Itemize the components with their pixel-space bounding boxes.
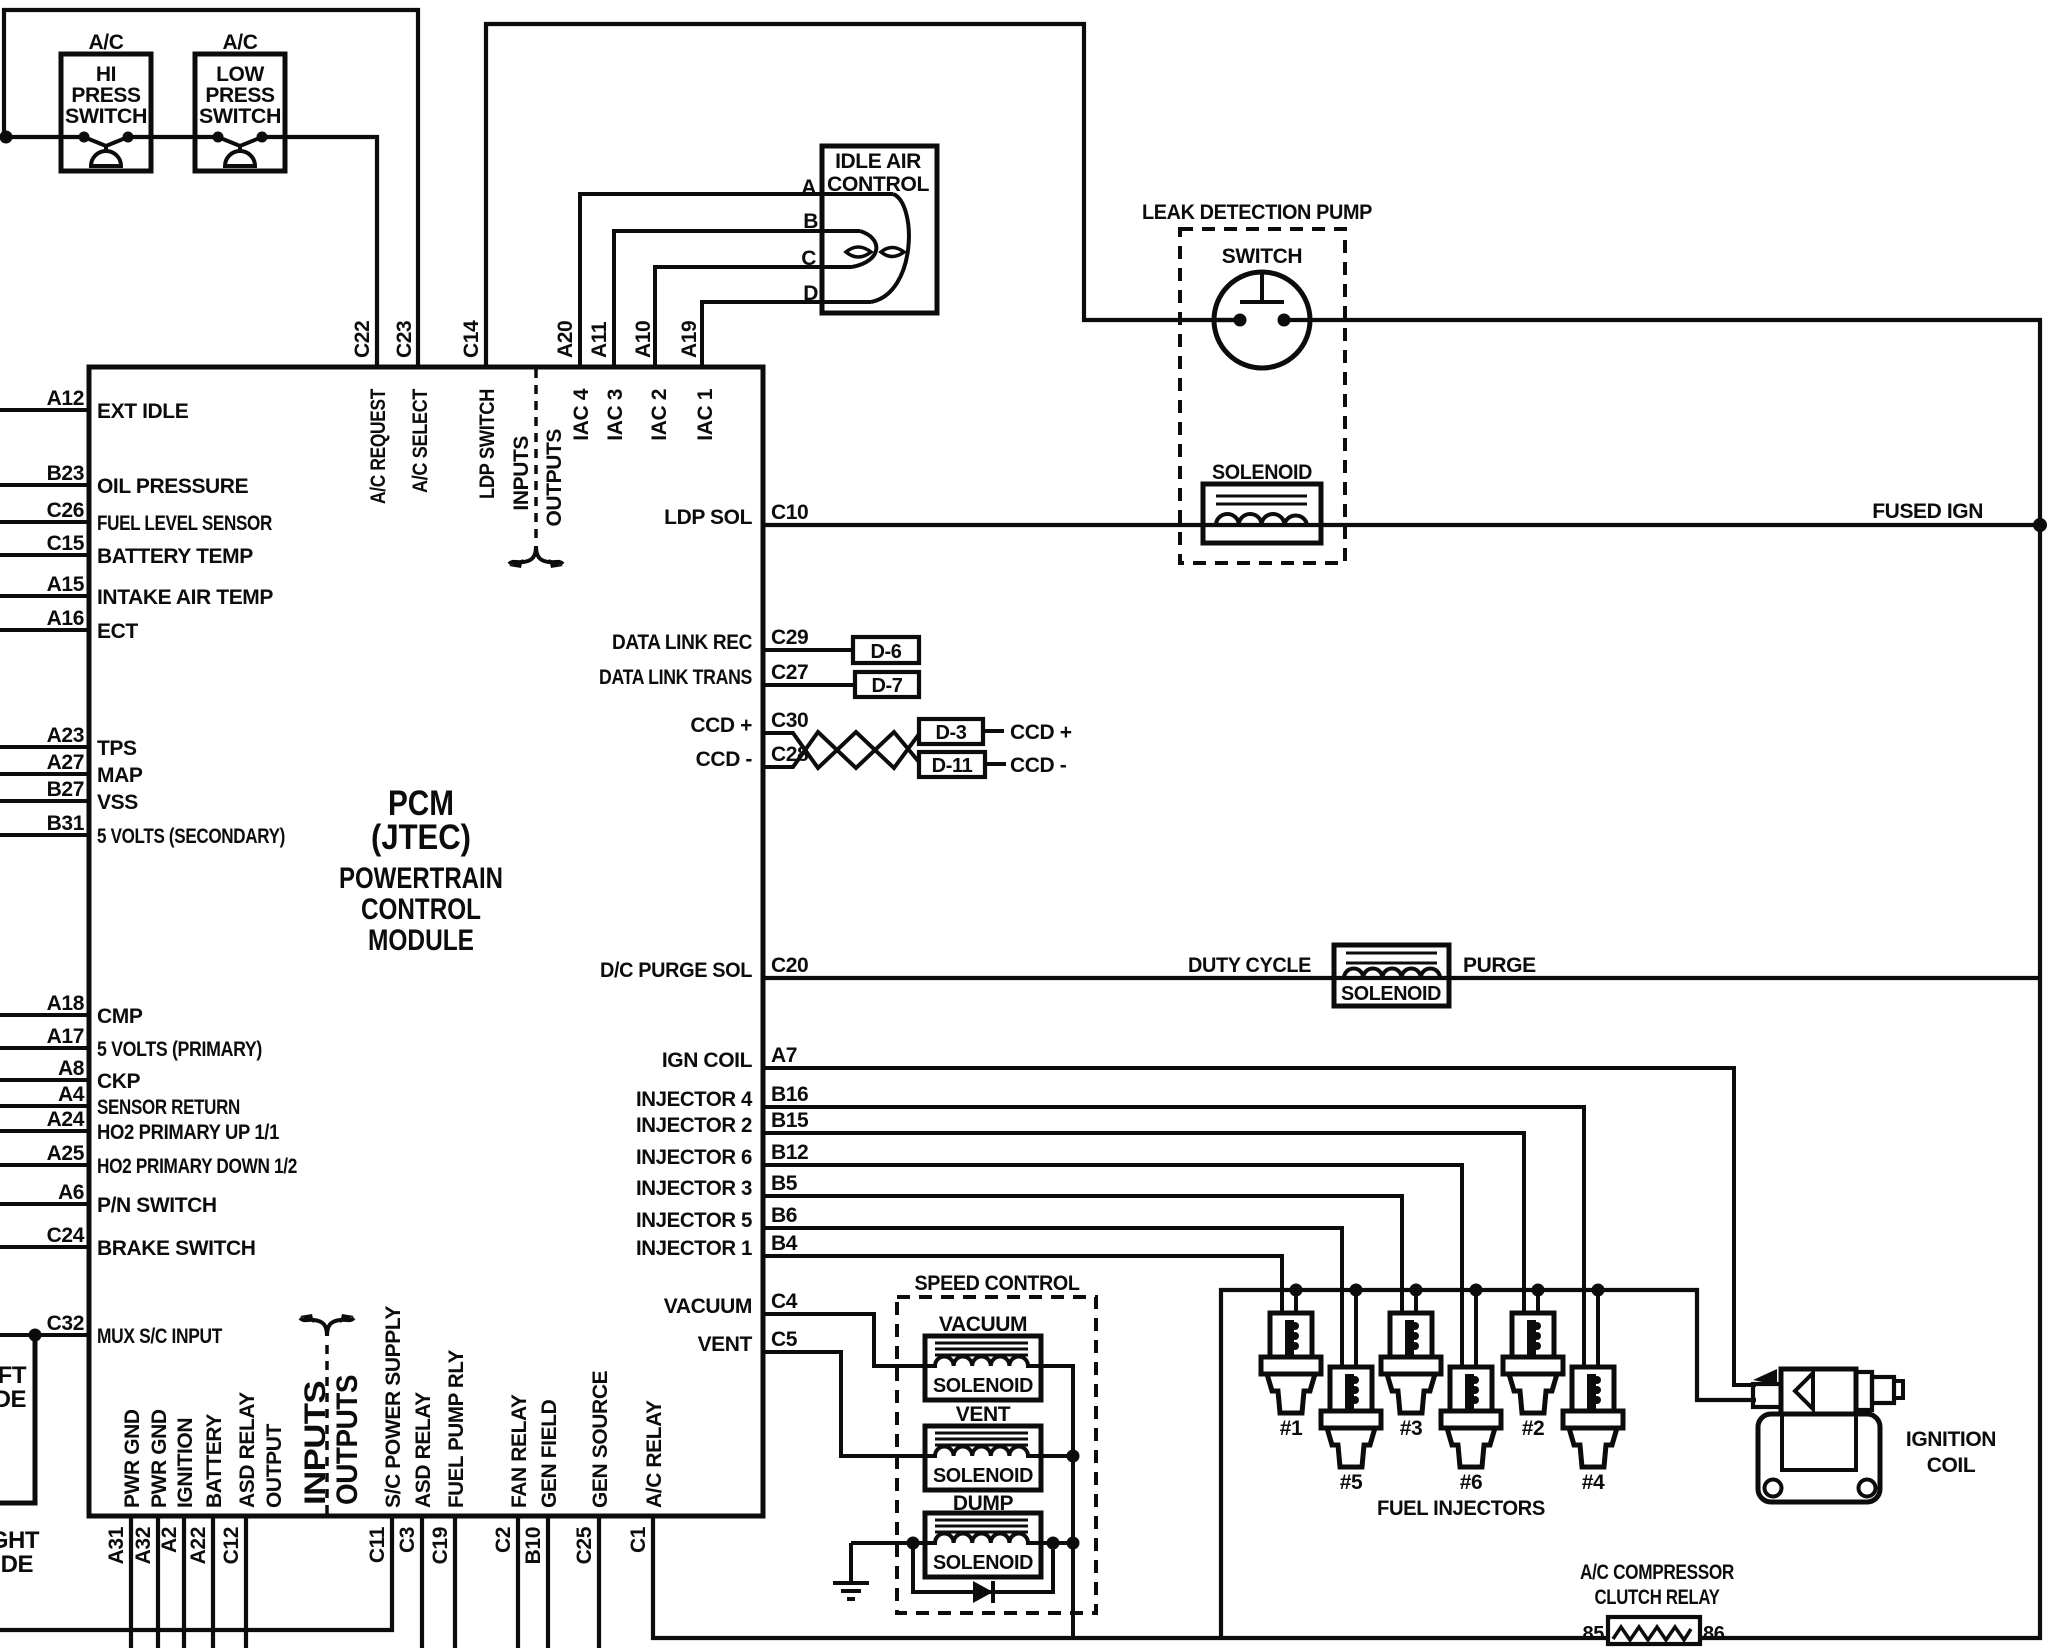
svg-text:SOLENOID: SOLENOID	[933, 1552, 1033, 1574]
svg-text:C29: C29	[771, 626, 808, 649]
wire injector B5	[763, 1196, 1402, 1313]
svg-text:OIL PRESSURE: OIL PRESSURE	[97, 475, 249, 498]
svg-text:OUTPUT: OUTPUT	[263, 1424, 286, 1509]
junction node top-left	[0, 131, 13, 144]
svg-text:OUTPUTS: OUTPUTS	[543, 429, 566, 527]
left pin A12 EXT IDLE: wire	[0, 408, 89, 412]
wire vent solenoid output	[1041, 1454, 1073, 1458]
svg-text:DUTY CYCLE: DUTY CYCLE	[1188, 954, 1311, 977]
svg-text:A8: A8	[58, 1057, 85, 1080]
relay coil box	[1608, 1617, 1700, 1644]
purge solenoid core lines	[1346, 953, 1437, 963]
svg-text:A27: A27	[47, 751, 84, 774]
svg-text:TPS: TPS	[97, 737, 137, 760]
wire LDP switch to right edge, down right side, bottom to relay	[1284, 320, 2040, 1638]
svg-text:SOLENOID: SOLENOID	[1341, 983, 1441, 1005]
svg-text:IGNITION: IGNITION	[1906, 1428, 1996, 1451]
svg-text:D-3: D-3	[935, 722, 966, 744]
wire C5 vent to vent solenoid	[763, 1352, 935, 1456]
svg-text:A4: A4	[58, 1083, 85, 1106]
ground symbol for dump solenoid	[833, 1543, 869, 1599]
svg-text:CCD -: CCD -	[1010, 754, 1067, 777]
svg-text:IAC 1: IAC 1	[694, 388, 717, 440]
svg-text:C23: C23	[393, 321, 416, 358]
svg-text:SIDE: SIDE	[0, 1551, 33, 1578]
fuel injector #4	[1563, 1284, 1623, 1495]
svg-text:85: 85	[1583, 1623, 1605, 1645]
svg-text:INTAKE AIR TEMP: INTAKE AIR TEMP	[97, 586, 273, 609]
injector supply bus wire	[1221, 1290, 1756, 1636]
svg-text:DATA LINK REC: DATA LINK REC	[612, 631, 752, 654]
wire: A/C switch line from left edge through switches to C22	[0, 137, 377, 367]
svg-text:#2: #2	[1522, 1417, 1545, 1440]
svg-text:PRESS: PRESS	[71, 84, 141, 107]
svg-text:HO2 PRIMARY UP 1/1: HO2 PRIMARY UP 1/1	[97, 1121, 280, 1144]
svg-text:C12: C12	[220, 1527, 243, 1564]
svg-text:SENSOR RETURN: SENSOR RETURN	[97, 1096, 240, 1119]
wire D-11 to CCD-	[985, 762, 1006, 766]
switch blade and contacts HI	[84, 137, 128, 146]
left pin A15 INTAKE AIR TEMP: wire	[0, 594, 89, 598]
IAC winding curve B-C	[852, 231, 876, 267]
wire C29 data link rec to D-6	[763, 648, 853, 652]
svg-text:C30: C30	[771, 709, 808, 732]
svg-text:BRAKE SWITCH: BRAKE SWITCH	[97, 1237, 256, 1260]
wire injector B6	[763, 1228, 1342, 1367]
svg-text:#4: #4	[1582, 1471, 1605, 1494]
svg-text:C22: C22	[351, 321, 374, 358]
diode bypass loop	[913, 1543, 1053, 1592]
left pin A25 HO2 PRIMARY DOWN 1/2: wire	[0, 1163, 89, 1167]
svg-text:#3: #3	[1400, 1417, 1423, 1440]
svg-text:ASD RELAY: ASD RELAY	[236, 1392, 259, 1508]
wire solenoid common vertical to bottom wire	[1041, 1366, 1073, 1638]
A/C HI press switch box	[61, 54, 151, 171]
CCD twisted pair wire from C28	[763, 732, 919, 768]
svg-text:RIGHT: RIGHT	[0, 1527, 40, 1554]
svg-text:PRESS: PRESS	[205, 84, 275, 107]
svg-text:B12: B12	[771, 1141, 808, 1164]
svg-text:C26: C26	[47, 499, 84, 522]
svg-text:C4: C4	[771, 1290, 798, 1313]
left side box	[0, 1335, 35, 1503]
CCD twisted pair wire from C30	[763, 732, 919, 768]
wire IAC4 A20 to pin A	[580, 194, 893, 367]
svg-text:LOW: LOW	[216, 63, 264, 86]
LDP switch plunger T	[1240, 273, 1284, 302]
wire C14 LDP switch net: up, right, down to switch	[486, 24, 1240, 367]
svg-text:IAC 3: IAC 3	[604, 389, 627, 441]
coil connector box	[1753, 1384, 1781, 1407]
junction dot fused ign right edge	[2033, 518, 2047, 532]
svg-text:B15: B15	[771, 1109, 809, 1132]
wire C10 LDP SOL to right edge (FUSED IGN)	[763, 523, 2040, 527]
left pin A8 CKP: wire	[0, 1078, 89, 1082]
left pin C24 BRAKE SWITCH: wire	[0, 1245, 89, 1249]
svg-text:FUEL INJECTORS: FUEL INJECTORS	[1377, 1497, 1545, 1520]
svg-text:DATA LINK TRANS: DATA LINK TRANS	[599, 666, 752, 689]
left pin A23 TPS: wire	[0, 745, 89, 749]
svg-text:MODULE: MODULE	[368, 924, 474, 957]
svg-text:SIDE: SIDE	[0, 1386, 26, 1413]
svg-text:C27: C27	[771, 661, 808, 684]
svg-text:INJECTOR 3: INJECTOR 3	[636, 1177, 752, 1200]
wire dump solenoid line from ground	[851, 1541, 1073, 1545]
pressure diaphragm dome HI	[91, 146, 121, 166]
wire pin x=213	[211, 1516, 215, 1648]
svg-text:HO2 PRIMARY DOWN 1/2: HO2 PRIMARY DOWN 1/2	[97, 1155, 297, 1178]
svg-text:A/C COMPRESSOR: A/C COMPRESSOR	[1580, 1561, 1734, 1584]
coil lower body rounded	[1758, 1414, 1880, 1502]
svg-text:CKP: CKP	[97, 1070, 141, 1093]
svg-text:#1: #1	[1280, 1417, 1303, 1440]
svg-text:A/C SELECT: A/C SELECT	[409, 389, 432, 493]
wire pin x=548	[546, 1516, 550, 1648]
coil connector arrow	[1753, 1369, 1777, 1385]
svg-text:SOLENOID: SOLENOID	[933, 1375, 1033, 1397]
switch text HI PRESS SWITCH	[65, 63, 147, 128]
LDP solenoid box	[1203, 484, 1321, 543]
speed control vent solenoid coil	[925, 1447, 1041, 1457]
svg-text:CONTROL: CONTROL	[827, 173, 930, 196]
wire pin x=131	[129, 1516, 133, 1648]
wire pin x=246	[244, 1516, 248, 1648]
svg-text:A6: A6	[58, 1181, 84, 1204]
svg-text:CLUTCH RELAY: CLUTCH RELAY	[1595, 1586, 1720, 1609]
svg-text:B: B	[803, 210, 818, 233]
left pin A6 P/N SWITCH: wire	[0, 1202, 89, 1206]
svg-text:CCD +: CCD +	[690, 714, 752, 737]
junction dot dump left (diode tap)	[907, 1537, 920, 1550]
wire C11 S/C power supply down and left to edge	[0, 1516, 392, 1630]
svg-text:A/C: A/C	[89, 31, 124, 54]
svg-text:A24: A24	[47, 1108, 85, 1131]
speed control dashed box	[897, 1297, 1096, 1613]
D-3 connector box	[919, 719, 983, 744]
wire: top-left feed to C23 A/C SELECT	[4, 10, 418, 367]
LDP dashed box	[1180, 229, 1345, 563]
purge solenoid box	[1334, 945, 1449, 1006]
speed control dump solenoid box	[925, 1513, 1041, 1577]
svg-text:SWITCH: SWITCH	[65, 105, 147, 128]
wire pin x=599	[597, 1516, 601, 1648]
top divider dashed line	[534, 369, 538, 544]
svg-text:A/C RELAY: A/C RELAY	[643, 1400, 666, 1508]
relay coil zigzag	[1613, 1627, 1691, 1640]
svg-text:IAC 4: IAC 4	[570, 388, 593, 440]
wire segment into switch left	[1214, 318, 1240, 322]
svg-text:D-7: D-7	[871, 675, 902, 697]
left pin C26 FUEL LEVEL SENSOR: wire	[0, 520, 89, 524]
coil upper body	[1781, 1369, 1856, 1414]
svg-text:A10: A10	[632, 321, 655, 358]
svg-text:(JTEC): (JTEC)	[371, 818, 471, 857]
svg-text:INPUTS: INPUTS	[510, 436, 533, 511]
svg-text:B4: B4	[771, 1232, 798, 1255]
svg-text:A17: A17	[47, 1025, 84, 1048]
pressure diaphragm dome LOW	[225, 146, 255, 166]
svg-text:CMP: CMP	[97, 1005, 143, 1028]
svg-text:A15: A15	[47, 573, 85, 596]
svg-text:B6: B6	[771, 1204, 797, 1227]
svg-text:A11: A11	[588, 321, 611, 358]
left pin A17 5 VOLTS (PRIMARY): wire	[0, 1046, 89, 1050]
left pin A4 SENSOR RETURN: wire	[0, 1104, 89, 1108]
svg-text:MUX S/C INPUT: MUX S/C INPUT	[97, 1325, 222, 1348]
svg-text:D/C PURGE SOL: D/C PURGE SOL	[600, 959, 753, 982]
svg-text:INJECTOR 4: INJECTOR 4	[636, 1088, 753, 1111]
svg-text:A12: A12	[47, 387, 84, 410]
wire injector B16	[763, 1107, 1584, 1367]
switch blade and contacts LOW	[218, 137, 262, 146]
bottom divider brace bird symbol	[300, 1318, 354, 1336]
svg-text:SPEED CONTROL: SPEED CONTROL	[915, 1272, 1081, 1295]
svg-text:A25: A25	[47, 1142, 85, 1165]
svg-text:PWR GND: PWR GND	[148, 1409, 171, 1508]
left pin A18 CMP: wire	[0, 1013, 89, 1017]
fuel injector #1	[1261, 1284, 1321, 1441]
speed control vacuum solenoid box	[925, 1336, 1041, 1400]
svg-text:A31: A31	[105, 1526, 128, 1564]
svg-text:A22: A22	[187, 1527, 210, 1564]
D-11 connector box	[919, 752, 985, 777]
speed control vacuum solenoid core lines	[935, 1343, 1028, 1355]
svg-text:C: C	[801, 247, 816, 270]
D-7 connector box	[855, 672, 919, 697]
svg-text:A/C: A/C	[223, 31, 258, 54]
svg-text:B5: B5	[771, 1172, 798, 1195]
svg-text:C2: C2	[492, 1527, 515, 1553]
IAC contact lens 2	[881, 248, 904, 257]
svg-text:FUSED IGN: FUSED IGN	[1872, 500, 1983, 523]
IAC contact lens 1	[846, 247, 871, 257]
svg-text:VENT: VENT	[956, 1403, 1011, 1426]
ignition coil assembly	[1753, 1369, 1903, 1502]
svg-text:SWITCH: SWITCH	[1222, 245, 1302, 268]
svg-text:CONTROL: CONTROL	[361, 893, 481, 926]
D-6 connector box	[853, 637, 919, 663]
svg-text:IGNITION: IGNITION	[174, 1418, 197, 1508]
left pin C15 BATTERY TEMP: wire	[0, 553, 89, 557]
svg-text:VSS: VSS	[97, 791, 138, 814]
A/C LOW press switch box	[195, 54, 285, 171]
svg-text:VACUUM: VACUUM	[939, 1313, 1027, 1336]
svg-text:LDP SOL: LDP SOL	[664, 506, 752, 529]
svg-text:#5: #5	[1340, 1471, 1363, 1494]
svg-text:PURGE: PURGE	[1463, 954, 1536, 977]
wire IAC2 A10 to pin C	[655, 267, 852, 367]
svg-text:A16: A16	[47, 607, 84, 630]
left pin A27 MAP: wire	[0, 772, 89, 776]
svg-text:LEFT: LEFT	[0, 1362, 27, 1389]
svg-text:CCD +: CCD +	[1010, 721, 1072, 744]
svg-text:B27: B27	[47, 778, 84, 801]
svg-text:C5: C5	[771, 1328, 798, 1351]
svg-text:INJECTOR 6: INJECTOR 6	[636, 1146, 752, 1169]
speed control dump solenoid coil	[925, 1534, 1041, 1544]
junction dot C32	[29, 1329, 42, 1342]
svg-text:C1: C1	[627, 1526, 650, 1553]
svg-text:GEN FIELD: GEN FIELD	[538, 1399, 561, 1508]
svg-text:HI: HI	[96, 63, 116, 86]
coil chevron	[1795, 1373, 1813, 1409]
wire C1 A/C relay down and right to relay coil	[653, 1516, 1608, 1638]
svg-text:P/N SWITCH: P/N SWITCH	[97, 1194, 217, 1217]
junction dot dump common	[1067, 1537, 1080, 1550]
svg-text:A2: A2	[158, 1527, 181, 1553]
svg-text:A23: A23	[47, 724, 84, 747]
LDP solenoid coil bumps	[1216, 514, 1307, 525]
wire pin x=422	[420, 1516, 424, 1648]
junction dot vent common	[1067, 1450, 1080, 1463]
svg-text:ASD RELAY: ASD RELAY	[412, 1392, 435, 1508]
switch text LOW PRESS SWITCH	[199, 63, 281, 128]
svg-text:FAN RELAY: FAN RELAY	[508, 1394, 531, 1508]
svg-text:C10: C10	[771, 501, 808, 524]
svg-text:IDLE AIR: IDLE AIR	[835, 150, 921, 173]
svg-text:C11: C11	[366, 1526, 389, 1563]
LDP switch circle	[1214, 272, 1310, 368]
svg-text:COIL: COIL	[1927, 1454, 1976, 1477]
fuel injector #6	[1441, 1284, 1501, 1495]
top divider brace bird symbol	[509, 546, 563, 564]
svg-text:B16: B16	[771, 1083, 808, 1106]
svg-text:86: 86	[1703, 1623, 1725, 1645]
svg-text:5 VOLTS (PRIMARY): 5 VOLTS (PRIMARY)	[97, 1038, 262, 1061]
junction dot dump right (diode tap)	[1047, 1537, 1060, 1550]
left pin B31 5 VOLTS (SECONDARY): wire	[0, 833, 89, 837]
bottom divider dashed line	[325, 1338, 329, 1514]
svg-text:EXT IDLE: EXT IDLE	[97, 400, 189, 423]
svg-text:D: D	[803, 282, 818, 305]
left pin B23 OIL PRESSURE: wire	[0, 483, 89, 487]
purge solenoid coil bumps	[1334, 968, 1449, 978]
svg-text:POWERTRAIN: POWERTRAIN	[339, 862, 503, 895]
wire injector B12	[763, 1165, 1462, 1367]
speed control vacuum solenoid coil	[925, 1357, 1041, 1367]
wire pin x=518	[516, 1516, 520, 1648]
svg-text:D-11: D-11	[932, 755, 973, 777]
wire pin x=455	[453, 1516, 457, 1648]
wire pin x=158	[156, 1516, 160, 1648]
wire injector B4	[763, 1256, 1282, 1313]
wire pin x=184	[182, 1516, 186, 1648]
coil inner lines	[1782, 1414, 1856, 1470]
svg-text:C3: C3	[396, 1527, 419, 1553]
speed control vent solenoid core lines	[935, 1433, 1028, 1445]
svg-text:SOLENOID: SOLENOID	[933, 1465, 1033, 1487]
wire C20 purge sol to right edge	[763, 976, 2040, 980]
svg-text:LEAK DETECTION PUMP: LEAK DETECTION PUMP	[1142, 201, 1372, 224]
left pin A16 ECT: wire	[0, 628, 89, 632]
svg-text:INJECTOR 2: INJECTOR 2	[636, 1114, 752, 1137]
svg-text:MAP: MAP	[97, 764, 143, 787]
svg-text:#6: #6	[1460, 1471, 1483, 1494]
svg-text:BATTERY TEMP: BATTERY TEMP	[97, 545, 253, 568]
wire C27 data link trans to D-7	[763, 683, 855, 687]
svg-text:GEN SOURCE: GEN SOURCE	[589, 1370, 612, 1508]
svg-text:A7: A7	[771, 1044, 797, 1067]
svg-text:S/C POWER SUPPLY: S/C POWER SUPPLY	[382, 1306, 405, 1508]
diode symbol	[973, 1581, 993, 1603]
svg-text:INJECTOR 1: INJECTOR 1	[636, 1237, 753, 1260]
fuel injector #2	[1503, 1284, 1563, 1441]
svg-text:C24: C24	[47, 1224, 85, 1247]
svg-text:VENT: VENT	[698, 1333, 753, 1356]
svg-text:BATTERY: BATTERY	[203, 1414, 226, 1508]
svg-text:A19: A19	[678, 321, 701, 358]
left pin C32 MUX S/C INPUT: wire	[0, 1333, 89, 1337]
svg-text:B10: B10	[522, 1527, 545, 1564]
svg-text:IAC 2: IAC 2	[648, 389, 671, 441]
svg-text:C15: C15	[47, 532, 85, 555]
wire A7 ign coil	[763, 1068, 1756, 1385]
svg-text:SOLENOID: SOLENOID	[1212, 461, 1312, 484]
svg-text:B31: B31	[47, 812, 85, 835]
svg-text:C32: C32	[47, 1312, 84, 1335]
svg-text:VACUUM: VACUUM	[664, 1295, 752, 1318]
svg-text:A18: A18	[47, 992, 85, 1015]
svg-text:C25: C25	[573, 1526, 596, 1564]
wire D-3 to CCD+	[983, 729, 1004, 733]
speed control dump solenoid core lines	[935, 1520, 1028, 1532]
wire IAC3 A11 to pin B	[614, 231, 860, 367]
svg-text:C19: C19	[429, 1527, 452, 1564]
svg-text:INJECTOR 5: INJECTOR 5	[636, 1209, 753, 1232]
svg-text:A: A	[801, 176, 816, 199]
fuel injector #5	[1321, 1284, 1381, 1495]
wire injector B15	[763, 1133, 1524, 1313]
svg-text:OUTPUTS: OUTPUTS	[331, 1375, 364, 1505]
coil mounting holes	[1765, 1480, 1782, 1497]
svg-text:FUEL LEVEL SENSOR: FUEL LEVEL SENSOR	[97, 512, 272, 535]
PCM (JTEC) powertrain control module box	[89, 367, 763, 1516]
svg-text:B23: B23	[47, 462, 84, 485]
svg-text:A32: A32	[132, 1527, 155, 1564]
wire IAC1 A19 to pin D	[702, 302, 871, 367]
coil HT tower rects	[1856, 1372, 1872, 1410]
svg-text:D-6: D-6	[870, 641, 901, 663]
LDP solenoid core lines	[1216, 496, 1307, 504]
svg-text:IGN COIL: IGN COIL	[662, 1049, 753, 1072]
svg-text:C20: C20	[771, 954, 808, 977]
wire C4 vacuum to vacuum solenoid	[763, 1314, 935, 1366]
speed control vent solenoid box	[925, 1426, 1041, 1490]
left pin A24 HO2 PRIMARY UP 1/1: wire	[0, 1129, 89, 1133]
svg-text:LDP SWITCH: LDP SWITCH	[476, 389, 499, 499]
idle air control box	[822, 146, 937, 313]
PCM title text	[339, 784, 503, 957]
left pin B27 VSS: wire	[0, 799, 89, 803]
svg-text:PWR GND: PWR GND	[121, 1409, 144, 1508]
svg-text:SWITCH: SWITCH	[199, 105, 281, 128]
svg-text:ECT: ECT	[97, 620, 138, 643]
IAC winding curve A-D	[871, 194, 909, 302]
svg-text:CCD -: CCD -	[696, 748, 753, 771]
LDP switch contact dots	[1234, 314, 1247, 327]
svg-text:A20: A20	[554, 321, 577, 358]
svg-text:C14: C14	[460, 320, 483, 358]
svg-text:A/C REQUEST: A/C REQUEST	[367, 389, 390, 504]
fuel injector #3	[1381, 1284, 1441, 1441]
svg-text:FUEL PUMP RLY: FUEL PUMP RLY	[445, 1350, 468, 1508]
svg-text:5 VOLTS (SECONDARY): 5 VOLTS (SECONDARY)	[97, 825, 285, 848]
